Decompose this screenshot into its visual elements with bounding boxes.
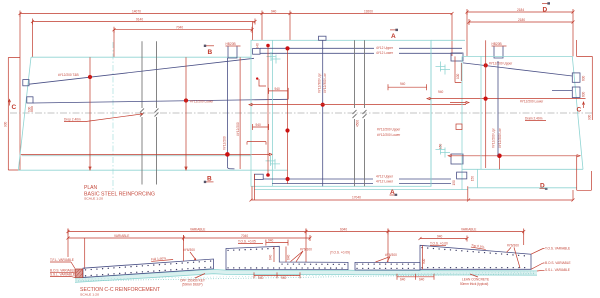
svg-text:4Y12 Lower: 4Y12 Lower: [376, 180, 394, 184]
svg-text:940: 940: [275, 87, 281, 91]
red tick below left hook: [31, 106, 33, 112]
svg-text:640: 640: [419, 277, 425, 281]
dim vertical x186: [185, 57, 187, 170]
left span bottom bar: [33, 99, 288, 103]
short dim leader y102.5: [450, 101, 469, 103]
svg-text:19200: 19200: [364, 9, 373, 13]
rebar callout 4: [507, 244, 521, 268]
dim extension vertical x32.5: [32, 22, 34, 58]
chamber inner wall cyan x272: [272, 40, 274, 186]
svg-text:940: 940: [438, 90, 444, 94]
bottom dim verticals chamber: [252, 174, 254, 200]
section marker B top: [204, 45, 214, 56]
svg-text:600: 600: [582, 75, 586, 81]
section dim line 2 VARIABLE/7040: [67, 234, 312, 241]
right span bottom edge: [462, 168, 583, 170]
chamber outline: [251, 40, 431, 186]
svg-text:VARIABLE: VARIABLE: [114, 234, 129, 238]
section marker A top: [390, 29, 398, 40]
bar callout dot left top: [88, 75, 92, 79]
dim drop leg right: [523, 232, 525, 246]
section dim 940 right: [419, 234, 469, 241]
svg-text:50mm thick (typical): 50mm thick (typical): [460, 282, 488, 286]
right span top bar hook 1: [572, 73, 580, 82]
svg-text:4Y12 Upper: 4Y12 Upper: [376, 175, 394, 179]
svg-text:#Y12/200 Lower: #Y12/200 Lower: [520, 99, 544, 103]
svg-text:940: 940: [437, 234, 443, 238]
segment B bottom rebar dots: [228, 267, 346, 269]
rebar callout 2: [291, 247, 313, 261]
mid dim bracket y141 left: [247, 142, 266, 145]
wing wall right dim box: [577, 156, 592, 191]
right span lower bar stub: [552, 90, 572, 92]
segment C top rebar dots: [357, 263, 418, 265]
svg-text:#Y6/300: #Y6/300: [385, 253, 397, 257]
svg-text:#Y6/300: #Y6/300: [183, 248, 195, 252]
svg-text:640: 640: [269, 254, 273, 260]
svg-text:(T.O.S. +0.09): (T.O.S. +0.09): [330, 251, 350, 255]
left level label BOS: [50, 268, 76, 273]
right span top edge: [462, 55, 572, 57]
left span top bar hook: [23, 80, 29, 86]
drop level note left: [64, 113, 143, 121]
right span right edge sloped: [572, 56, 583, 169]
svg-text:A: A: [391, 33, 396, 40]
dimension line 2184 top right: [466, 8, 575, 57]
svg-text:T.O.S. VARIABLE: T.O.S. VARIABLE: [545, 247, 570, 251]
dim extension vertical x467: [466, 12, 468, 56]
slab segment D outline: [420, 245, 531, 269]
vertical bar left span x227: [227, 58, 234, 169]
right span top bar hook 2: [572, 87, 580, 98]
svg-text:640: 640: [400, 277, 406, 281]
svg-text:150: 150: [471, 176, 475, 182]
section marker A bottom: [390, 189, 398, 196]
chamber bottom bar rail 1: [263, 178, 451, 180]
svg-text:940: 940: [400, 82, 406, 86]
dim extension vertical x114: [113, 30, 115, 57]
rebar callout 1: [183, 248, 196, 260]
mid chamber bar labels: [377, 128, 401, 137]
right span dim line y178: [448, 154, 580, 170]
dimension line 7040: [113, 26, 254, 33]
left level label SSL: [50, 272, 75, 277]
hook box right bottom: [451, 154, 463, 164]
svg-text:940: 940: [256, 123, 262, 127]
section marker C left: [8, 100, 16, 111]
bar callout dot right top: [484, 61, 514, 67]
dimension line 2180 right: [468, 18, 575, 25]
segment B left edge dim 940 rotated: [269, 247, 291, 263]
lap cross symbol right top: [436, 62, 451, 75]
svg-text:T.F.L. VARIABLE: T.F.L. VARIABLE: [50, 258, 74, 262]
svg-text:Drop 2.40m: Drop 2.40m: [64, 118, 81, 122]
dim 640 640 below segment C: [397, 274, 434, 282]
dim 940 line y87: [388, 82, 427, 90]
left span inner bottom line: [22, 155, 252, 157]
left span bottom edge: [18, 169, 287, 171]
left span left edge sloped: [18, 57, 31, 170]
svg-text:9140: 9140: [136, 17, 143, 21]
left abutment pier line 2: [156, 41, 158, 184]
seg B top dim 940: [266, 239, 288, 246]
chamber top bar text: [376, 46, 394, 55]
svg-text:C: C: [12, 104, 17, 111]
right level label SSL: [537, 268, 570, 272]
right span top bar: [463, 63, 572, 76]
left span top edge: [31, 56, 251, 58]
svg-text:HB20B: HB20B: [226, 42, 236, 46]
svg-text:#Y12/200 Lower: #Y12/200 Lower: [190, 100, 214, 104]
dim line 17040: [250, 186, 575, 201]
svg-text:940: 940: [258, 276, 264, 280]
svg-text:#Y12/200 T&B: #Y12/200 T&B: [58, 73, 79, 77]
right level label BOS: [531, 261, 571, 270]
svg-text:S.S.L. VARIABLE: S.S.L. VARIABLE: [545, 268, 570, 272]
svg-text:#Y12/200 Upper: #Y12/200 Upper: [377, 128, 401, 132]
svg-text:#Y12/200 Upr: #Y12/200 Upr: [492, 127, 496, 148]
dim line y154 with dot: [21, 152, 272, 157]
segment C bottom rebar dots: [357, 267, 418, 269]
wing wall step right: hook rect: [457, 172, 467, 179]
dim line y98.6 right: [427, 90, 586, 103]
svg-text:940: 940: [281, 276, 287, 280]
fall note segment A: [151, 256, 173, 262]
mid dim line y104.6: [249, 104, 466, 106]
mid dim 940 lower left: [253, 123, 269, 130]
svg-text:4Y12 Upper: 4Y12 Upper: [376, 46, 394, 50]
svg-text:7040: 7040: [176, 26, 183, 30]
seg B TOS label: [238, 240, 263, 244]
svg-text:T.O.S. +0.05: T.O.S. +0.05: [238, 240, 256, 244]
bar line x322: [321, 40, 325, 186]
svg-text:2184: 2184: [517, 8, 524, 12]
svg-text:VARIABLE: VARIABLE: [461, 227, 476, 231]
dim extension vertical x20: [19, 14, 21, 171]
slab segment A end block: [75, 269, 83, 278]
svg-text:4500: 4500: [356, 120, 360, 127]
pier break marks center: [353, 110, 367, 118]
svg-text:150: 150: [452, 180, 456, 186]
svg-text:S.S.L. VARIABLE: S.S.L. VARIABLE: [50, 272, 75, 276]
drain level note right: [525, 117, 546, 121]
lap cross symbol bottom left: [266, 156, 281, 169]
vertical dim right span edge: [455, 56, 461, 82]
section title: [80, 287, 160, 296]
svg-text:#Y12/300 Upr: #Y12/300 Upr: [318, 72, 322, 93]
segment D step dim 940 rotated: [422, 245, 426, 269]
svg-text:150: 150: [439, 143, 443, 149]
svg-text:600: 600: [582, 91, 586, 97]
chamber top bar rail 2: [260, 52, 462, 54]
red vertical x272 with dots: [266, 44, 270, 177]
svg-text:940: 940: [268, 239, 274, 243]
left span top bar: [29, 58, 254, 84]
left vertical dimension 900: [4, 58, 21, 171]
svg-text:4Y12 Lower: 4Y12 Lower: [376, 51, 394, 55]
chamber outer bottom line: [254, 189, 468, 191]
dim extension x68: [67, 229, 69, 258]
dim vertical x485: [485, 40, 487, 168]
lap cross symbol right bottom: [436, 145, 451, 158]
svg-text:SCALE 1:20: SCALE 1:20: [84, 197, 103, 201]
top slope note segment D: [471, 243, 486, 249]
dim extension x183: [183, 235, 185, 261]
bar mark label HB20B left: [226, 42, 241, 58]
blinding layer band: [75, 269, 537, 282]
bar callout dot left bottom: [184, 98, 188, 102]
chamber hook box bottom left: [254, 174, 263, 179]
svg-text:HB20B: HB20B: [492, 42, 502, 46]
TOS +0.00 note: [430, 241, 448, 245]
red vertical x240: [239, 57, 241, 169]
segment A bottom rebar dots: [86, 267, 212, 276]
dim extension x306: [305, 229, 307, 263]
chamber top edge extension: [431, 39, 465, 41]
pier pair center line 2: [364, 40, 366, 186]
rotated bar labels x322: [318, 72, 327, 93]
wing wall step right: rotated texts: [439, 143, 475, 185]
pier pair center line 1: [354, 40, 356, 186]
svg-text:100: 100: [28, 106, 32, 112]
lap cross symbol top left: [267, 52, 281, 64]
dimension label 940 top: [262, 9, 290, 40]
red vertical x287 with dots: [285, 46, 289, 184]
svg-text:#Y12/200: #Y12/200: [223, 136, 227, 150]
svg-text:900: 900: [4, 121, 8, 127]
section marker C right: [577, 102, 585, 114]
lean concrete note right: [460, 274, 489, 286]
svg-text:6040: 6040: [340, 227, 347, 231]
wing wall step right: cyan step: [468, 170, 577, 188]
svg-text:940: 940: [271, 9, 277, 13]
svg-text:#Y12/300 Lwr: #Y12/300 Lwr: [323, 72, 327, 93]
centerline dashed: [10, 112, 592, 114]
dimension line 9140: [31, 17, 257, 24]
svg-text:#Y12/200: #Y12/200: [236, 122, 240, 136]
left level label TOS: [50, 258, 75, 269]
small rect on chamber top: [319, 36, 327, 40]
dim extension vertical x252: [252, 22, 254, 41]
svg-text:#Y6/300: #Y6/300: [507, 244, 519, 248]
svg-text:VARIABLE: VARIABLE: [190, 227, 205, 231]
svg-text:#Y12/200 Upper: #Y12/200 Upper: [489, 61, 513, 65]
svg-text:2180: 2180: [518, 18, 525, 22]
right level label TOS: [531, 247, 570, 255]
svg-text:7040: 7040: [241, 234, 248, 238]
svg-text:#Y12/200 Lower: #Y12/200 Lower: [377, 133, 401, 137]
segment D bottom rebar dots: [422, 267, 529, 269]
right span left edge: [461, 56, 463, 190]
chamber right inner wall cyan: [430, 40, 432, 186]
plan title: [84, 185, 155, 201]
section dim line top VARIABLE/6040/VARIABLE: [67, 227, 526, 234]
svg-text:B: B: [208, 49, 213, 56]
svg-text:940: 940: [255, 43, 259, 49]
segment D top rebar dots: [422, 248, 529, 257]
segment A top rebar dots: [86, 261, 212, 270]
svg-text:D: D: [543, 7, 548, 14]
construction line cyan dashed x113: [112, 42, 114, 192]
chamber bottom bar rail 2: [272, 183, 451, 185]
dimension label 19200: [364, 9, 373, 13]
rebar callout 3: [376, 253, 398, 262]
slab segment C outline: [355, 262, 420, 270]
key note left: [180, 274, 206, 287]
svg-text:T.O.S. +0.00: T.O.S. +0.00: [430, 241, 448, 245]
seg B bottom dim 940 940: [254, 272, 300, 280]
svg-text:SCALE 1:20: SCALE 1:20: [80, 292, 99, 296]
svg-text:17040: 17040: [352, 196, 361, 200]
chamber top bar rail 1: [260, 47, 462, 49]
svg-text:B.O.S. VARIABLE: B.O.S. VARIABLE: [545, 261, 571, 265]
rotated dim 900 right: [577, 40, 593, 120]
slab segment A outline: [83, 259, 214, 277]
pier break marks left: [140, 109, 159, 117]
section marker D top: [542, 2, 550, 13]
left abutment pier line 1: [141, 41, 143, 184]
bar mark label HB20B right: [492, 42, 507, 58]
weep hole box right: [456, 124, 462, 130]
svg-text:(50mm DEEP): (50mm DEEP): [182, 283, 203, 287]
left span bottom bar hook: [27, 97, 33, 103]
slab segment B outline: [226, 246, 348, 269]
svg-text:C: C: [577, 107, 582, 114]
section marker D bottom: [540, 183, 548, 190]
svg-text:PLAN: PLAN: [84, 185, 97, 191]
vertical bar right span x498: [497, 61, 499, 156]
dim extension x388: [387, 229, 389, 263]
svg-text:Drain 2.40m: Drain 2.40m: [525, 117, 543, 121]
svg-text:#Y6/300: #Y6/300: [300, 247, 312, 251]
dimension line 14070: [19, 9, 454, 17]
dim vertical x90: [89, 57, 91, 170]
svg-text:900: 900: [588, 114, 592, 120]
svg-text:900: 900: [422, 258, 426, 264]
svg-text:640: 640: [287, 254, 291, 260]
section marker B bottom: [204, 176, 214, 183]
dim extension vertical x452: [451, 14, 453, 57]
inner cyan line x481: [480, 56, 482, 169]
svg-text:14070: 14070: [132, 9, 141, 13]
segment B top rebar dots: [228, 248, 277, 250]
svg-text:100: 100: [456, 73, 460, 79]
hook box right top: [451, 53, 463, 61]
mid dim line y90 left: [269, 88, 289, 99]
svg-text:#Y12/200 Lwr: #Y12/200 Lwr: [498, 127, 502, 148]
chamber hook box top left: [253, 49, 260, 55]
chamber bottom bar text: [376, 175, 394, 184]
dim extension x84: [84, 238, 86, 269]
